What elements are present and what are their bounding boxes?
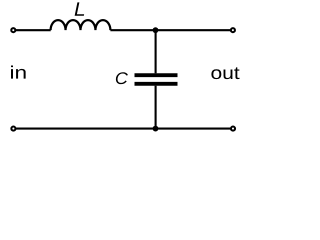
- wire capacitor bottom lead: [155, 86, 157, 129]
- inductor L: [51, 20, 111, 30]
- node A (top junction): [153, 27, 159, 33]
- terminal output bottom: [231, 127, 235, 131]
- terminal input bottom: [11, 127, 15, 131]
- terminal output top: [231, 28, 235, 32]
- node B (bottom junction): [153, 126, 159, 132]
- wire capacitor top lead: [155, 30, 157, 73]
- label C: [116, 72, 128, 84]
- wire bottom rail: [15, 128, 230, 130]
- label L: [75, 2, 85, 15]
- capacitor C: [135, 75, 178, 84]
- label out: [211, 67, 239, 79]
- wire top-left (input terminal to inductor): [15, 29, 50, 31]
- label in: [11, 66, 26, 79]
- terminal input top: [11, 28, 15, 32]
- wire top-right (inductor to output terminal): [110, 29, 230, 31]
